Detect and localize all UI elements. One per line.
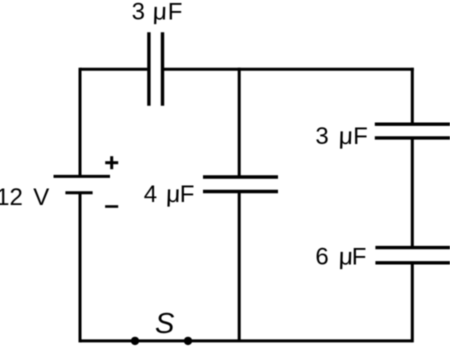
wire left upper [79,68,82,177]
wire top-left segment [80,68,147,71]
switch S terminal dots [131,337,192,345]
wire middle lower [238,192,241,341]
wire right upper [411,68,414,124]
wire right lower [411,263,414,343]
svg-text:S: S [155,308,175,340]
wire middle upper [238,68,241,177]
wire left lower [79,193,82,343]
svg-text:12V: 12V [0,184,49,211]
minus sign [105,205,118,208]
wire right middle [411,138,414,248]
wire bottom [80,339,412,342]
capacitor C2 4uF plates [203,177,278,192]
battery B1 12V [54,176,111,192]
capacitor C3 3uF plates [375,124,450,138]
capacitor C4 6uF plates [375,248,450,263]
plus sign [105,156,118,169]
svg-text:μ: μ [149,0,169,25]
capacitor C1 3uF plates [149,32,163,105]
wire top-right segment [164,68,414,71]
svg-text:μ: μ [335,123,355,150]
